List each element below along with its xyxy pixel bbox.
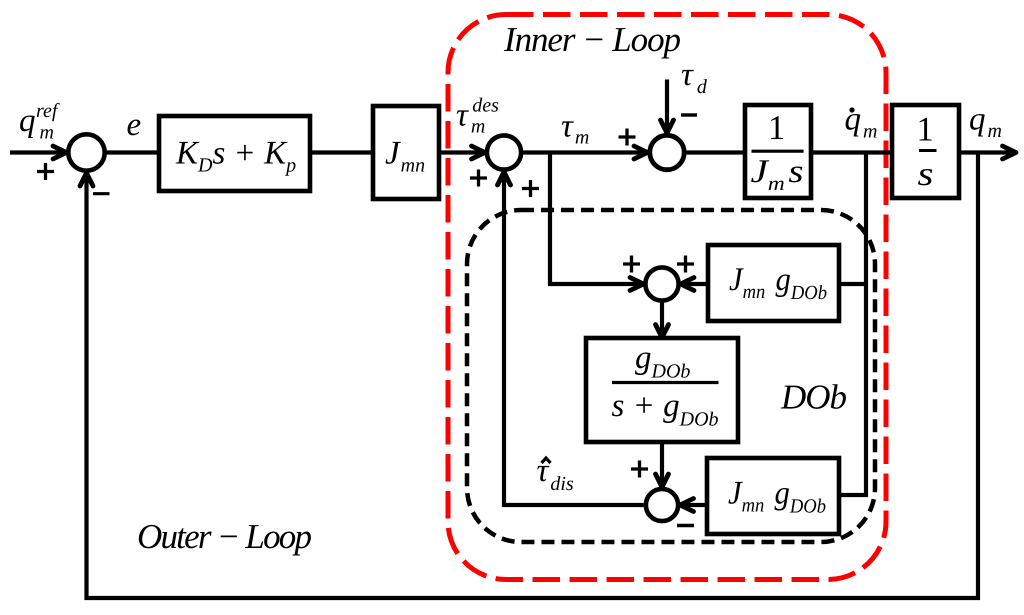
minus sign at S3 disturbance input: [681, 113, 697, 116]
summing junction S1: [68, 134, 104, 170]
wire filter down to summing junction S5: [656, 442, 669, 487]
label q_m^ref: [19, 100, 60, 144]
black dashed DOb boundary: [467, 210, 875, 542]
svg-text:qmref: qmref: [19, 100, 60, 144]
plus sign at S2 left input: [470, 170, 487, 187]
wire Jmn to summing junction S2: [439, 146, 485, 159]
wire branch tau_m down to DOb sum S4: [550, 153, 646, 291]
red dashed Inner-Loop boundary: [448, 15, 886, 580]
wire input reference: [10, 146, 67, 159]
wire S2 to summing junction S3: [521, 146, 648, 159]
svg-text:qm: qm: [845, 102, 878, 143]
block Jmn gDOb upper: [708, 245, 839, 321]
svg-text:DOb: DOb: [780, 378, 847, 417]
svg-text:1: 1: [768, 109, 785, 147]
svg-text:KDs + Kp: KDs + Kp: [175, 136, 296, 177]
wire output q_m: [959, 146, 1016, 159]
label tau_d: [681, 57, 708, 98]
wire qdot feedback vertical: [839, 153, 866, 496]
wire S1 to controller block: [105, 150, 161, 154]
label qdot_m: [845, 102, 878, 143]
label e: [127, 107, 142, 143]
block Jmn: [373, 106, 439, 199]
svg-text:τm: τm: [561, 109, 589, 149]
plus sign at S4 left input: [623, 256, 640, 273]
svg-text:Outer − Loop: Outer − Loop: [137, 517, 312, 556]
minus sign at summing junction S1 feedback: [93, 192, 110, 195]
wire tau_d disturbance input: [661, 80, 674, 134]
wire block Jmn gDOb upper to S4: [681, 278, 867, 291]
label tau_m^des: [456, 95, 499, 138]
summing junction S5: [646, 489, 678, 521]
wire S5 output left and up to S2: [498, 172, 644, 505]
block gDOb/(s+gDOb) low-pass filter: [586, 338, 738, 442]
plus sign at summing junction S1 input: [37, 163, 54, 180]
wire S4 down to filter block: [656, 302, 669, 338]
wire motor to integrator: [811, 150, 894, 154]
wire controller to Jmn block: [310, 150, 375, 154]
label q_m output: [969, 102, 1002, 143]
block 1/s integrator: [892, 105, 959, 198]
plus sign at S5 top input: [631, 461, 648, 478]
wire outer feedback loop: [80, 153, 978, 599]
plus sign at S4 right input: [677, 256, 694, 273]
controller block KDs+Kp: [159, 116, 310, 191]
summing junction S3 disturbance: [650, 135, 684, 169]
label Outer-Loop: [137, 517, 312, 556]
label Inner-Loop: [503, 20, 681, 59]
svg-text:τmdes: τmdes: [456, 95, 499, 138]
plus sign at S3 left input: [619, 129, 636, 146]
summing junction S2: [487, 135, 521, 169]
svg-text:1: 1: [917, 111, 934, 149]
label DOb: [780, 378, 847, 417]
wire S3 to motor block: [687, 150, 748, 154]
minus sign at S5 right input: [677, 524, 694, 527]
svg-text:e: e: [127, 107, 142, 143]
svg-text:Inner − Loop: Inner − Loop: [503, 20, 681, 59]
svg-text:qm: qm: [969, 102, 1002, 143]
block 1/(Jm s) motor: [745, 105, 811, 198]
svg-text:s: s: [918, 156, 934, 193]
svg-text:τdis: τdis: [537, 453, 574, 495]
plus sign at S2 bottom input: [522, 180, 539, 197]
block Jmn gDOb lower: [707, 458, 839, 534]
label tau_hat_dis: [537, 453, 574, 495]
label tau_m: [561, 109, 589, 149]
summing junction S4: [645, 267, 678, 300]
svg-text:τd: τd: [681, 57, 708, 98]
wire block Jmn gDOb lower to S5: [680, 499, 707, 512]
